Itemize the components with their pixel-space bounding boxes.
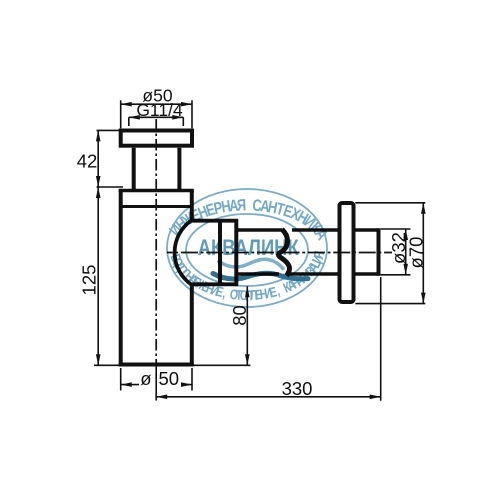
svg-text:330: 330 <box>282 378 313 399</box>
svg-text:125: 125 <box>79 265 100 296</box>
svg-text:Я: Я <box>237 197 247 215</box>
svg-text:ø: ø <box>140 368 151 389</box>
svg-text:80: 80 <box>229 305 250 326</box>
svg-text:42: 42 <box>77 151 98 172</box>
svg-text:50: 50 <box>159 368 180 389</box>
svg-text:G11/4: G11/4 <box>136 100 183 120</box>
svg-text:ø70: ø70 <box>406 237 427 269</box>
svg-text:АКВАЛИНК: АКВАЛИНК <box>198 235 299 260</box>
